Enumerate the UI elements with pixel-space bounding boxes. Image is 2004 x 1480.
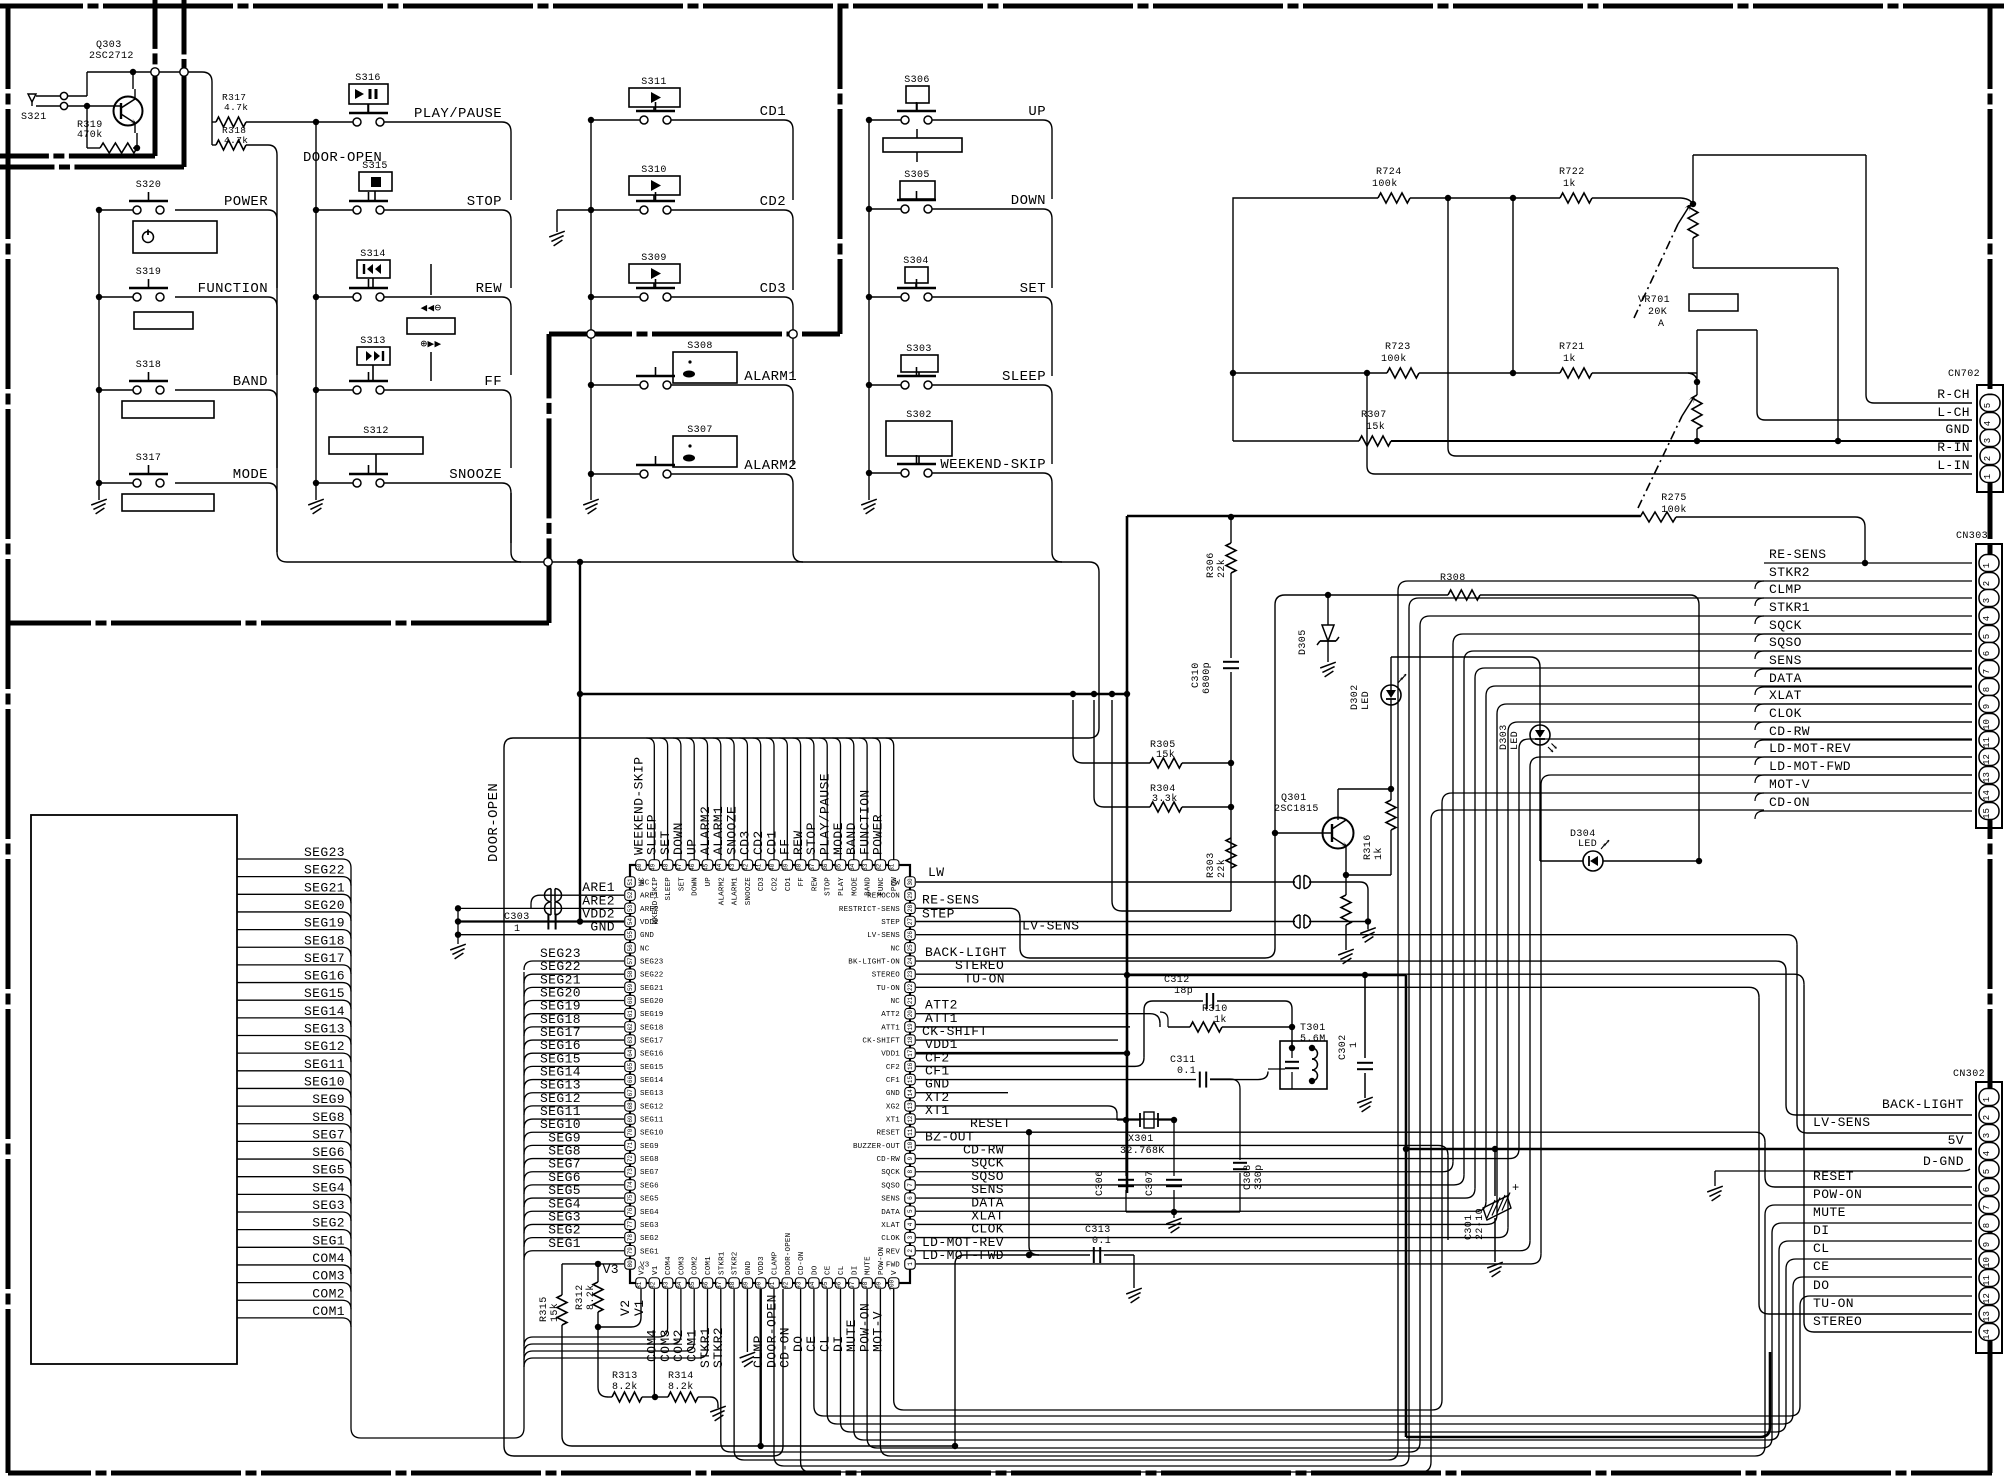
svg-text:R721: R721 <box>1559 342 1585 353</box>
svg-text:+: + <box>1512 1181 1520 1195</box>
svg-text:5: 5 <box>1982 1169 1992 1174</box>
svg-text:STKR2: STKR2 <box>1769 565 1810 580</box>
svg-text:FWD: FWD <box>886 1261 900 1269</box>
svg-text:77: 77 <box>627 1220 634 1228</box>
svg-text:LV-SENS: LV-SENS <box>867 932 900 940</box>
svg-text:4.7k: 4.7k <box>224 135 248 146</box>
svg-text:SEG1: SEG1 <box>640 1248 659 1256</box>
svg-text:43: 43 <box>729 863 736 871</box>
svg-text:TU-ON: TU-ON <box>964 971 1005 986</box>
svg-text:55: 55 <box>627 931 634 939</box>
svg-text:Q301: Q301 <box>1281 793 1307 804</box>
svg-text:8: 8 <box>907 1170 914 1174</box>
svg-text:3: 3 <box>1982 1133 1992 1138</box>
svg-text:R312: R312 <box>575 1284 586 1310</box>
svg-text:61: 61 <box>627 1010 634 1018</box>
svg-text:CN702: CN702 <box>1948 369 1980 380</box>
svg-text:C310: C310 <box>1191 662 1202 688</box>
svg-text:V2: V2 <box>639 1266 647 1275</box>
svg-text:COM1: COM1 <box>312 1304 345 1319</box>
svg-text:SEG22: SEG22 <box>640 972 664 980</box>
svg-text:14: 14 <box>1982 1329 1992 1340</box>
svg-text:78: 78 <box>627 1234 634 1242</box>
svg-text:SQSO: SQSO <box>881 1182 900 1190</box>
svg-text:POW-ON: POW-ON <box>1813 1187 1862 1202</box>
svg-text:67: 67 <box>627 1089 634 1097</box>
svg-text:CLMP: CLMP <box>1769 582 1802 597</box>
svg-text:LED: LED <box>1510 731 1521 750</box>
svg-text:66: 66 <box>627 1076 634 1084</box>
svg-text:3: 3 <box>907 1235 914 1239</box>
svg-text:D305: D305 <box>1298 629 1309 655</box>
svg-text:37: 37 <box>809 863 816 871</box>
svg-text:SNOOZE: SNOOZE <box>745 877 753 906</box>
svg-text:LV-SENS: LV-SENS <box>1022 919 1079 934</box>
svg-text:S302: S302 <box>906 410 932 421</box>
svg-text:85: 85 <box>689 1281 696 1289</box>
svg-text:C307: C307 <box>1145 1170 1156 1196</box>
svg-text:BUZZER-OUT: BUZZER-OUT <box>853 1143 900 1151</box>
svg-text:MODE: MODE <box>233 467 268 483</box>
svg-text:SENS: SENS <box>881 1196 900 1204</box>
svg-text:SLEEP: SLEEP <box>665 877 673 901</box>
svg-text:SEG2: SEG2 <box>312 1216 345 1231</box>
svg-text:TU-ON: TU-ON <box>876 985 900 993</box>
svg-text:RE-SENS: RE-SENS <box>1769 547 1826 562</box>
svg-text:STKR2: STKR2 <box>711 1327 726 1368</box>
svg-text:1: 1 <box>1982 563 1992 568</box>
svg-text:80: 80 <box>627 1260 634 1268</box>
svg-text:S306: S306 <box>904 75 930 86</box>
svg-text:86: 86 <box>703 1281 710 1289</box>
svg-text:T301: T301 <box>1300 1023 1326 1034</box>
svg-text:46: 46 <box>689 863 696 871</box>
svg-text:UP: UP <box>1028 104 1046 120</box>
svg-text:1: 1 <box>1983 474 1993 479</box>
svg-text:MUTE: MUTE <box>865 1256 873 1275</box>
svg-text:22k: 22k <box>1216 859 1228 878</box>
svg-text:CD1: CD1 <box>760 104 786 120</box>
svg-text:X301: X301 <box>1128 1134 1154 1145</box>
svg-text:R-IN: R-IN <box>1937 440 1970 455</box>
svg-text:DOWN: DOWN <box>692 877 700 896</box>
svg-text:XT1: XT1 <box>925 1103 950 1118</box>
svg-text:LV-SENS: LV-SENS <box>1813 1115 1870 1130</box>
svg-text:42: 42 <box>742 863 749 871</box>
svg-text:S316: S316 <box>355 73 381 84</box>
svg-text:15: 15 <box>907 1076 914 1084</box>
svg-text:R724: R724 <box>1376 167 1402 178</box>
svg-text:69: 69 <box>627 1115 634 1123</box>
svg-text:COM2: COM2 <box>692 1256 700 1275</box>
svg-text:97: 97 <box>849 1281 856 1289</box>
svg-text:SEG14: SEG14 <box>304 1004 345 1019</box>
svg-text:R306: R306 <box>1206 552 1217 578</box>
svg-text:12: 12 <box>1982 1293 1992 1304</box>
svg-text:16: 16 <box>907 1062 914 1070</box>
svg-text:SEG7: SEG7 <box>640 1169 659 1177</box>
svg-text:20K: 20K <box>1648 307 1667 318</box>
svg-text:100k: 100k <box>1372 178 1398 190</box>
svg-text:6: 6 <box>1982 1187 1992 1192</box>
svg-text:SEG16: SEG16 <box>304 969 345 984</box>
svg-text:SEG8: SEG8 <box>640 1156 659 1164</box>
svg-text:S303: S303 <box>906 344 932 355</box>
svg-text:1: 1 <box>514 924 520 935</box>
svg-text:CD3: CD3 <box>758 877 766 891</box>
svg-text:C311: C311 <box>1170 1055 1196 1066</box>
svg-text:SEG4: SEG4 <box>640 1209 659 1217</box>
svg-text:S307: S307 <box>687 425 713 436</box>
svg-text:26: 26 <box>907 931 914 939</box>
svg-text:SEG4: SEG4 <box>312 1180 345 1195</box>
svg-text:COM4: COM4 <box>665 1256 673 1275</box>
svg-text:64: 64 <box>627 1049 634 1057</box>
svg-text:4.7k: 4.7k <box>224 102 248 113</box>
svg-text:BAND: BAND <box>233 374 268 390</box>
svg-text:SEG23: SEG23 <box>304 845 345 860</box>
svg-text:◀◀⊖: ◀◀⊖ <box>420 302 441 314</box>
svg-text:COM3: COM3 <box>678 1256 686 1275</box>
svg-text:7: 7 <box>907 1183 914 1187</box>
svg-text:LD-MOT-REV: LD-MOT-REV <box>1769 741 1851 756</box>
svg-text:C313: C313 <box>1085 1225 1111 1236</box>
svg-text:SEG22: SEG22 <box>304 863 345 878</box>
svg-text:1: 1 <box>1349 1042 1360 1048</box>
svg-text:2: 2 <box>1983 456 1993 461</box>
svg-text:SEG6: SEG6 <box>640 1182 659 1190</box>
svg-text:STEREO: STEREO <box>872 972 901 980</box>
svg-text:330p: 330p <box>1254 1164 1265 1190</box>
svg-text:ALARM2: ALARM2 <box>718 877 726 905</box>
svg-text:22: 22 <box>907 983 914 991</box>
svg-text:S308: S308 <box>687 341 713 352</box>
svg-text:R307: R307 <box>1361 410 1387 421</box>
svg-text:SENS: SENS <box>1769 653 1802 668</box>
svg-text:81: 81 <box>636 1281 643 1289</box>
svg-text:R-CH: R-CH <box>1937 387 1970 402</box>
svg-text:CL: CL <box>1813 1241 1829 1256</box>
svg-text:48: 48 <box>663 863 670 871</box>
svg-text:RE-SENS: RE-SENS <box>922 892 979 907</box>
svg-text:COM1: COM1 <box>705 1256 713 1275</box>
svg-text:XLAT: XLAT <box>881 1222 900 1230</box>
svg-text:12: 12 <box>1982 754 1992 765</box>
svg-text:SQCK: SQCK <box>881 1169 900 1177</box>
svg-text:CK-SHIFT: CK-SHIFT <box>862 1038 900 1046</box>
svg-text:V1: V1 <box>632 1300 647 1316</box>
svg-text:71: 71 <box>627 1141 634 1149</box>
svg-text:ALARM1: ALARM1 <box>744 369 797 385</box>
svg-text:100k: 100k <box>1381 353 1407 365</box>
svg-text:UP: UP <box>705 877 713 887</box>
svg-text:SEG3: SEG3 <box>640 1222 659 1230</box>
svg-text:6: 6 <box>1982 651 1992 656</box>
svg-text:SEG21: SEG21 <box>304 880 345 895</box>
svg-text:38: 38 <box>796 863 803 871</box>
svg-text:FUNC: FUNC <box>878 877 886 896</box>
svg-text:S313: S313 <box>360 336 386 347</box>
svg-text:92: 92 <box>782 1281 789 1289</box>
svg-text:CLAMP: CLAMP <box>772 1251 780 1275</box>
svg-text:28: 28 <box>907 904 914 912</box>
svg-text:3: 3 <box>1983 438 1993 443</box>
svg-text:S309: S309 <box>641 253 667 264</box>
svg-text:32: 32 <box>875 863 882 871</box>
svg-text:25: 25 <box>907 944 914 952</box>
svg-text:POWER: POWER <box>871 814 886 855</box>
svg-text:S305: S305 <box>904 170 930 181</box>
svg-text:22k: 22k <box>1216 559 1228 578</box>
svg-text:C306: C306 <box>1095 1170 1106 1196</box>
svg-text:BK-LIGHT-ON: BK-LIGHT-ON <box>848 959 900 967</box>
svg-text:79: 79 <box>627 1247 634 1255</box>
svg-text:V: V <box>891 1270 899 1275</box>
svg-text:4: 4 <box>1983 421 1993 426</box>
svg-text:40: 40 <box>769 863 776 871</box>
svg-text:WKEND-SKIP: WKEND-SKIP <box>652 877 660 924</box>
svg-text:5V: 5V <box>1948 1133 1964 1148</box>
svg-text:31: 31 <box>889 863 896 871</box>
svg-text:LW: LW <box>928 865 944 880</box>
svg-text:30: 30 <box>907 878 914 886</box>
svg-text:8: 8 <box>1982 1223 1992 1228</box>
svg-text:C312: C312 <box>1164 975 1190 986</box>
svg-text:8.2k: 8.2k <box>668 1381 694 1393</box>
svg-text:CD-RW: CD-RW <box>963 1143 1004 1158</box>
svg-text:WEEKEND-SKIP: WEEKEND-SKIP <box>940 457 1046 473</box>
svg-text:3.3k: 3.3k <box>1152 793 1178 805</box>
svg-text:TU-ON: TU-ON <box>1813 1296 1854 1311</box>
svg-text:SEG18: SEG18 <box>640 1024 664 1032</box>
svg-text:C303: C303 <box>504 912 530 923</box>
svg-text:CN302: CN302 <box>1953 1069 1985 1080</box>
svg-text:R314: R314 <box>668 1371 694 1382</box>
svg-text:62: 62 <box>627 1023 634 1031</box>
svg-text:POW-ON: POW-ON <box>878 1247 886 1275</box>
svg-text:33: 33 <box>862 863 869 871</box>
svg-text:10: 10 <box>1982 1257 1992 1268</box>
svg-text:52: 52 <box>627 891 634 899</box>
svg-text:CD3: CD3 <box>760 281 786 297</box>
svg-text:D-GND: D-GND <box>1923 1154 1964 1169</box>
svg-text:SEG20: SEG20 <box>640 998 664 1006</box>
svg-text:47: 47 <box>676 863 683 871</box>
svg-text:GND: GND <box>1945 422 1970 437</box>
svg-text:11: 11 <box>907 1128 914 1136</box>
svg-text:90: 90 <box>756 1281 763 1289</box>
svg-text:R723: R723 <box>1385 342 1411 353</box>
svg-text:MODE: MODE <box>851 877 859 896</box>
svg-text:CF2: CF2 <box>886 1064 900 1072</box>
svg-text:MOT-V: MOT-V <box>1769 777 1810 792</box>
svg-text:63: 63 <box>627 1036 634 1044</box>
svg-text:100: 100 <box>889 1279 896 1290</box>
svg-text:SEG5: SEG5 <box>640 1196 659 1204</box>
svg-text:6800p: 6800p <box>1202 662 1213 694</box>
svg-text:49: 49 <box>649 863 656 871</box>
svg-text:STKR1: STKR1 <box>1769 600 1810 615</box>
svg-text:15k: 15k <box>1366 421 1385 433</box>
svg-text:REV: REV <box>886 1248 900 1256</box>
svg-text:NC: NC <box>639 877 647 887</box>
svg-text:53: 53 <box>627 904 634 912</box>
svg-text:1: 1 <box>907 1262 914 1266</box>
svg-text:36: 36 <box>822 863 829 871</box>
svg-text:74: 74 <box>627 1181 634 1189</box>
svg-text:2: 2 <box>1982 1115 1992 1120</box>
svg-text:XG2: XG2 <box>886 1103 900 1111</box>
svg-text:SEG11: SEG11 <box>304 1057 345 1072</box>
svg-text:21: 21 <box>907 997 914 1005</box>
svg-text:S321: S321 <box>21 112 47 123</box>
svg-text:14: 14 <box>1982 790 1992 801</box>
svg-text:39: 39 <box>782 863 789 871</box>
svg-text:SEG11: SEG11 <box>640 1117 664 1125</box>
svg-text:19: 19 <box>907 1023 914 1031</box>
svg-text:RESTRICT-SENS: RESTRICT-SENS <box>839 906 900 914</box>
svg-text:SEG17: SEG17 <box>304 951 345 966</box>
svg-text:SEG7: SEG7 <box>312 1127 345 1142</box>
svg-text:R316: R316 <box>1363 834 1374 860</box>
svg-text:RESET: RESET <box>876 1130 900 1138</box>
svg-text:⊕▶▶: ⊕▶▶ <box>420 338 441 350</box>
svg-text:CN303: CN303 <box>1956 531 1988 542</box>
svg-text:C301: C301 <box>1464 1214 1475 1240</box>
svg-text:DO: DO <box>1813 1278 1829 1293</box>
svg-text:DOOR-OPEN: DOOR-OPEN <box>486 783 502 862</box>
svg-text:S315: S315 <box>362 161 388 172</box>
svg-text:8.2k: 8.2k <box>585 1284 597 1310</box>
svg-text:15k: 15k <box>549 1303 561 1322</box>
svg-text:29: 29 <box>907 891 914 899</box>
svg-text:SEG17: SEG17 <box>640 1038 664 1046</box>
svg-text:R310: R310 <box>1202 1004 1228 1015</box>
svg-text:FUNCTION: FUNCTION <box>198 281 268 297</box>
svg-text:12: 12 <box>907 1115 914 1123</box>
svg-text:SEG10: SEG10 <box>640 1130 664 1138</box>
svg-text:5: 5 <box>907 1209 914 1213</box>
svg-text:50: 50 <box>636 863 643 871</box>
svg-text:DATA: DATA <box>881 1209 900 1217</box>
svg-text:ATT1: ATT1 <box>881 1024 900 1032</box>
svg-text:70: 70 <box>627 1128 634 1136</box>
svg-text:VDD3: VDD3 <box>758 1256 766 1275</box>
svg-text:SET: SET <box>678 877 686 891</box>
svg-text:22-10: 22-10 <box>1475 1208 1486 1240</box>
svg-text:R303: R303 <box>1206 852 1217 878</box>
svg-text:91: 91 <box>769 1281 776 1289</box>
svg-text:REW: REW <box>811 877 819 891</box>
svg-text:59: 59 <box>627 983 634 991</box>
svg-text:4: 4 <box>1982 1151 1992 1156</box>
svg-text:1k: 1k <box>1563 178 1576 190</box>
svg-text:Q303: Q303 <box>96 40 122 51</box>
svg-text:R722: R722 <box>1559 167 1585 178</box>
svg-text:20: 20 <box>907 1010 914 1018</box>
svg-text:COM2: COM2 <box>312 1286 345 1301</box>
svg-text:SEG9: SEG9 <box>640 1143 659 1151</box>
svg-text:S304: S304 <box>903 256 929 267</box>
svg-text:1k: 1k <box>1563 353 1576 365</box>
svg-text:REW: REW <box>476 281 503 297</box>
svg-text:S319: S319 <box>136 267 162 278</box>
svg-text:0.1: 0.1 <box>1177 1066 1196 1077</box>
svg-text:18: 18 <box>907 1036 914 1044</box>
svg-text:1: 1 <box>1982 1097 1992 1102</box>
svg-text:DI: DI <box>851 1266 859 1275</box>
svg-text:SLEEP: SLEEP <box>1002 369 1046 385</box>
svg-text:CLOK: CLOK <box>881 1235 900 1243</box>
svg-text:2SC2712: 2SC2712 <box>89 51 134 62</box>
svg-text:DI: DI <box>1813 1223 1829 1238</box>
svg-text:CD-ON: CD-ON <box>798 1251 806 1275</box>
svg-text:9: 9 <box>907 1156 914 1160</box>
svg-text:83: 83 <box>663 1281 670 1289</box>
svg-text:9: 9 <box>1982 1242 1992 1247</box>
svg-text:87: 87 <box>716 1281 723 1289</box>
svg-text:CL: CL <box>838 1265 846 1275</box>
svg-text:SEG19: SEG19 <box>304 916 345 931</box>
svg-text:95: 95 <box>822 1281 829 1289</box>
svg-text:DOWN: DOWN <box>1011 193 1046 209</box>
svg-text:SEG15: SEG15 <box>640 1064 664 1072</box>
svg-text:CLOK: CLOK <box>1769 706 1802 721</box>
svg-text:1k: 1k <box>1373 847 1385 860</box>
svg-text:68: 68 <box>627 1102 634 1110</box>
svg-text:R275: R275 <box>1661 493 1687 504</box>
svg-text:9: 9 <box>1982 704 1992 709</box>
svg-text:11: 11 <box>1982 737 1992 748</box>
svg-text:LED: LED <box>1578 839 1597 850</box>
svg-text:99: 99 <box>875 1281 882 1289</box>
svg-text:24: 24 <box>907 957 914 965</box>
svg-text:LED: LED <box>1361 691 1372 710</box>
svg-text:RESET: RESET <box>970 1116 1011 1131</box>
svg-text:SEG12: SEG12 <box>640 1103 664 1111</box>
svg-text:89: 89 <box>742 1281 749 1289</box>
svg-text:CF1: CF1 <box>886 1077 900 1085</box>
svg-text:ATT2: ATT2 <box>881 1011 900 1019</box>
svg-text:FF: FF <box>798 877 806 886</box>
svg-text:CE: CE <box>825 1265 833 1275</box>
svg-text:1k: 1k <box>1214 1014 1227 1026</box>
svg-text:NC: NC <box>891 998 901 1006</box>
svg-text:32.768K: 32.768K <box>1120 1146 1165 1157</box>
svg-text:4: 4 <box>1982 616 1992 621</box>
svg-text:SEG10: SEG10 <box>304 1074 345 1089</box>
svg-text:L-CH: L-CH <box>1937 405 1970 420</box>
svg-text:45: 45 <box>703 863 710 871</box>
svg-text:SEG12: SEG12 <box>304 1039 345 1054</box>
svg-text:DATA: DATA <box>1769 671 1802 686</box>
svg-text:SQSO: SQSO <box>1769 635 1802 650</box>
svg-text:STKR1: STKR1 <box>718 1251 726 1275</box>
svg-text:57: 57 <box>627 957 634 965</box>
svg-text:93: 93 <box>796 1281 803 1289</box>
svg-text:COM3: COM3 <box>312 1269 345 1284</box>
svg-text:XLAT: XLAT <box>1769 688 1802 703</box>
svg-text:MOT-V: MOT-V <box>871 1311 886 1352</box>
svg-text:34: 34 <box>849 863 856 871</box>
svg-text:56: 56 <box>627 944 634 952</box>
svg-text:7: 7 <box>1982 669 1992 674</box>
svg-text:35: 35 <box>836 863 843 871</box>
svg-text:CD2: CD2 <box>772 877 780 891</box>
svg-text:100k: 100k <box>1661 504 1687 516</box>
svg-text:6: 6 <box>907 1196 914 1200</box>
svg-text:CD2: CD2 <box>760 194 786 210</box>
